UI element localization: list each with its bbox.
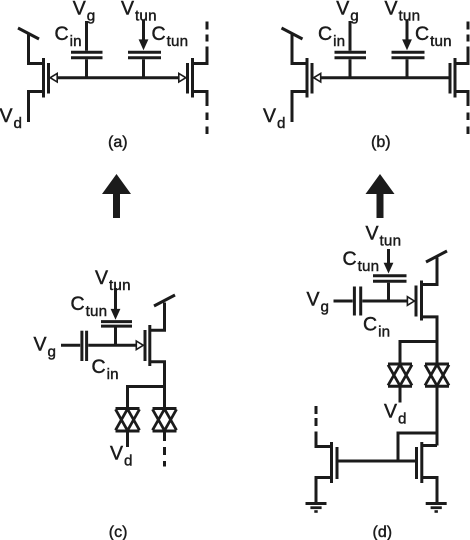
svg-text:(d): (d)	[373, 524, 393, 540]
svg-text:(c): (c)	[109, 524, 128, 540]
svg-text:(b): (b)	[371, 134, 391, 151]
svg-text:(a): (a)	[108, 134, 128, 151]
